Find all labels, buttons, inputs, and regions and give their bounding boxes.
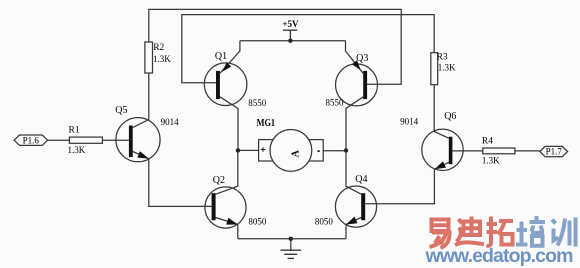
port P1.6	[14, 135, 48, 145]
wire: Q4 emitter to ground rail	[346, 218, 361, 239]
svg-text:1.3K: 1.3K	[438, 63, 456, 73]
power symbol +5V	[282, 19, 299, 43]
wire: MG1 minus terminal to right motor node	[323, 150, 346, 152]
wire: Q6 base to R4	[452, 150, 482, 152]
svg-text:R1: R1	[69, 126, 80, 136]
svg-text:9014: 9014	[400, 117, 419, 127]
wire: Q1 base via inner rail to R3 top	[182, 15, 434, 83]
svg-text:+5V: +5V	[282, 19, 299, 29]
watermark: 培 (blue)	[516, 216, 545, 246]
svg-text:Q5: Q5	[115, 105, 127, 116]
svg-text:R4: R4	[482, 136, 493, 146]
wire: Q2 emitter to ground rail	[216, 218, 238, 239]
ground	[281, 239, 302, 259]
svg-text:1.3K: 1.3K	[482, 155, 500, 165]
svg-text:1.3K: 1.3K	[153, 54, 171, 64]
svg-text:R3: R3	[437, 52, 448, 62]
svg-text:Q3: Q3	[356, 53, 368, 64]
wire: Q1 collector to left motor node	[220, 97, 238, 151]
wire: Q6 emitter down to Q4 base	[365, 162, 449, 203]
wire: Q4 collector to right motor node	[346, 151, 361, 195]
wire: Q3 collector to right motor node	[346, 97, 363, 151]
wire: Q5 collector riser to R2 bottom	[133, 73, 149, 128]
wire: R3 bottom to Q6 collector	[434, 85, 449, 139]
node: ground rail junction dot	[289, 237, 293, 241]
watermark: 拓 (red)	[487, 217, 514, 246]
watermark: 易 (red)	[430, 220, 450, 249]
wire: +5V rail	[240, 40, 346, 42]
svg-text:www.edatop.com: www.edatop.com	[425, 245, 574, 267]
svg-text:Q4: Q4	[355, 174, 367, 185]
svg-text:8050: 8050	[248, 216, 267, 226]
svg-text:A: A	[291, 149, 302, 157]
transistor Q6 (9014 NPN)	[400, 111, 463, 170]
wire: Q2 collector to left motor node	[216, 150, 238, 194]
node: left motor node junction dot	[236, 148, 240, 152]
wire: Q3 emitter to +5V rail	[346, 41, 364, 74]
svg-text:R2: R2	[153, 43, 164, 53]
svg-text:8550: 8550	[248, 98, 266, 108]
svg-text:P1.6: P1.6	[23, 135, 40, 145]
svg-text:8550: 8550	[326, 97, 345, 107]
wire: bottom ground rail	[238, 238, 346, 240]
svg-text:Q2: Q2	[213, 175, 225, 186]
svg-text:1.3K: 1.3K	[68, 145, 86, 155]
transistor Q4 (8050 NPN)	[315, 174, 377, 227]
resistor R2	[145, 42, 171, 73]
resistor R3	[431, 52, 456, 84]
resistor R4	[482, 136, 515, 165]
node: right motor node junction dot	[344, 148, 348, 152]
svg-text:Q1: Q1	[215, 51, 227, 62]
motor MG1	[257, 117, 324, 171]
wire: P1.6 port to R1	[48, 139, 70, 141]
transistor Q5 (9014 NPN)	[115, 105, 179, 162]
wire: left motor node to MG1 plus terminal	[238, 149, 259, 151]
port P1.7	[540, 146, 568, 156]
svg-text:P1.7: P1.7	[546, 147, 563, 157]
wire: R1 to Q5 base	[102, 139, 128, 141]
transistor Q3 (8550 PNP)	[326, 53, 378, 107]
svg-text:Q6: Q6	[444, 111, 456, 122]
watermark: 训 (blue)	[552, 218, 576, 247]
wire: Q1 emitter to +5V rail	[220, 41, 240, 74]
watermark: 迪 (red)	[455, 217, 484, 246]
svg-text:MG1: MG1	[257, 117, 276, 129]
svg-text:8050: 8050	[315, 216, 334, 226]
transistor Q1 (8550 PNP)	[204, 51, 266, 108]
resistor R1	[68, 126, 103, 156]
wire: R2 top via top outer rail to Q3 base	[149, 9, 401, 84]
wire: R4 to P1.7 port	[515, 150, 540, 152]
transistor Q2 (8050 NPN)	[205, 175, 267, 228]
wire: Q5 emitter down to Q2 base	[133, 152, 212, 207]
svg-text:9014: 9014	[161, 117, 180, 127]
